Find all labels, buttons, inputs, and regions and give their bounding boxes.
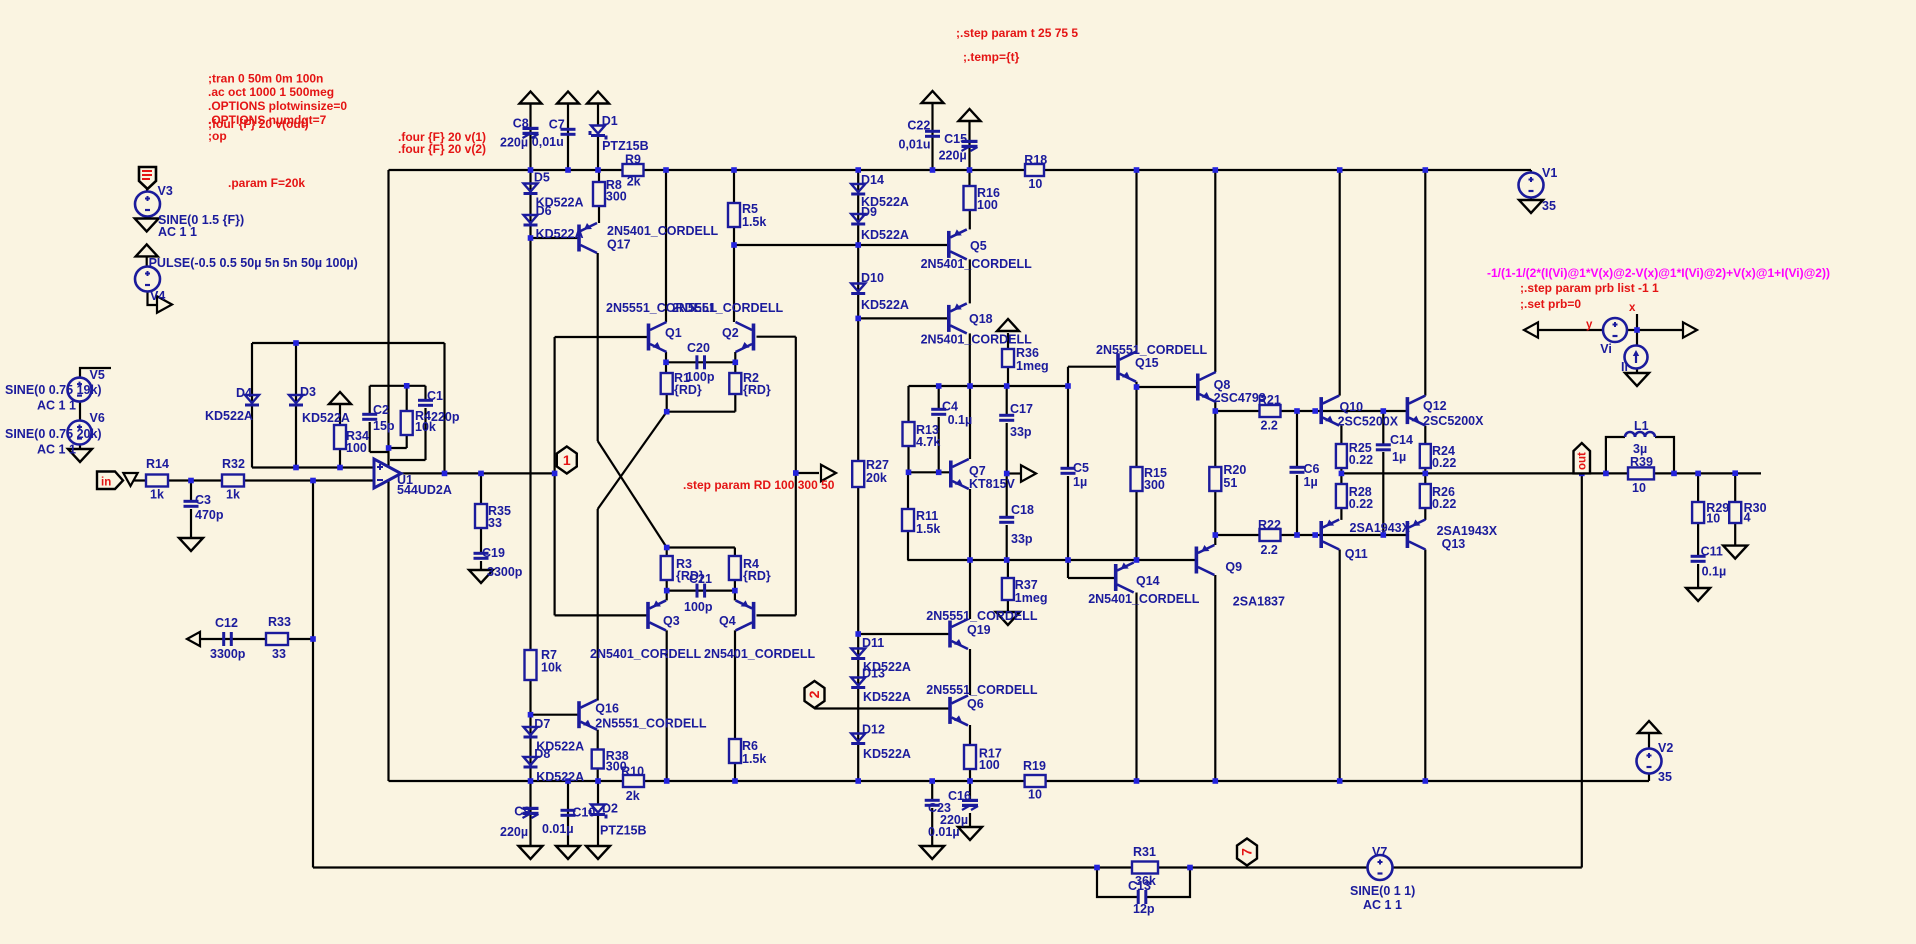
diode D10 <box>851 284 865 296</box>
ground <box>1625 373 1649 386</box>
wire <box>406 386 408 411</box>
junction <box>1134 778 1140 784</box>
svg-text:2k: 2k <box>627 175 641 189</box>
text <box>939 148 967 162</box>
power flag <box>557 92 579 104</box>
wire <box>969 649 971 695</box>
svg-text:12p: 12p <box>1133 902 1155 916</box>
junction <box>664 409 670 415</box>
wire <box>1734 523 1736 546</box>
text <box>1349 485 1372 499</box>
svg-text:R19: R19 <box>1023 759 1046 773</box>
capacitor C22 <box>925 130 940 138</box>
wire <box>597 781 599 804</box>
capacitor C8 <box>523 127 539 138</box>
capacitor C12 <box>222 632 233 646</box>
svg-text:V3: V3 <box>158 184 173 198</box>
directive text <box>208 99 347 113</box>
wire <box>389 780 1650 782</box>
junction <box>404 383 410 389</box>
wire <box>480 473 482 504</box>
resistor R38 <box>592 750 604 769</box>
wire <box>1697 473 1699 502</box>
diode D6 <box>524 215 538 227</box>
wire <box>1636 314 1638 330</box>
text <box>979 758 1000 772</box>
capacitor C16 <box>962 799 978 810</box>
text <box>572 805 595 819</box>
svg-text:R36: R36 <box>1016 346 1039 360</box>
wire <box>312 481 314 868</box>
resistor R4 <box>401 411 413 435</box>
svg-text:R33: R33 <box>268 615 291 629</box>
text <box>1016 359 1049 373</box>
junction <box>565 778 571 784</box>
wire <box>969 259 971 303</box>
svg-text:L1: L1 <box>1634 419 1649 433</box>
svg-text:220µ: 220µ <box>500 825 528 839</box>
svg-text:KD522A: KD522A <box>863 747 911 761</box>
svg-text:C14: C14 <box>1390 433 1413 447</box>
svg-text:x: x <box>1629 302 1636 314</box>
resistor R20 <box>1209 467 1221 491</box>
text <box>921 332 1033 346</box>
text <box>1258 393 1281 407</box>
wire <box>1007 600 1009 612</box>
text <box>1144 466 1167 480</box>
svg-text:2N5401_CORDELL: 2N5401_CORDELL <box>590 647 702 661</box>
svg-text:R11: R11 <box>916 509 938 523</box>
wire <box>1135 382 1137 387</box>
text <box>1706 501 1729 515</box>
power flag <box>587 92 609 104</box>
text <box>1338 415 1399 429</box>
svg-text:.four {F} 20 v(2): .four {F} 20 v(2) <box>398 142 486 156</box>
text <box>37 399 76 413</box>
ground <box>179 538 203 551</box>
text <box>1630 455 1653 469</box>
capacitor C13 <box>1137 890 1148 904</box>
wire <box>1648 773 1650 781</box>
text <box>149 256 358 270</box>
junction <box>663 360 669 366</box>
text <box>625 153 641 167</box>
resistor R8 <box>593 182 605 206</box>
svg-text:Q19: Q19 <box>967 623 991 637</box>
wire <box>1340 468 1342 484</box>
wire <box>424 386 426 400</box>
text <box>1658 741 1673 755</box>
diode D9 <box>851 214 865 226</box>
svg-text:V4: V4 <box>150 289 165 303</box>
text <box>1349 453 1373 467</box>
text <box>1023 759 1046 773</box>
text <box>686 370 715 384</box>
transistor Q11 <box>1319 520 1339 550</box>
wire <box>969 769 971 781</box>
svg-text:Q1: Q1 <box>665 326 682 340</box>
svg-text:C7: C7 <box>549 117 565 131</box>
arrow flag <box>187 632 200 646</box>
text <box>1542 199 1556 213</box>
text <box>482 546 505 560</box>
text <box>272 647 286 661</box>
resistor R29 <box>1692 502 1704 523</box>
ground <box>135 219 159 232</box>
wire <box>969 489 971 560</box>
text <box>926 683 1038 697</box>
directive text <box>1520 297 1581 311</box>
resistor R11 <box>902 509 914 531</box>
junction <box>1603 471 1609 477</box>
svg-text:;.set prb=0: ;.set prb=0 <box>1520 297 1581 311</box>
svg-text:D14: D14 <box>861 173 884 187</box>
wire <box>597 769 599 782</box>
text <box>861 298 909 312</box>
diode D8 <box>524 757 538 769</box>
wire <box>815 707 949 709</box>
text <box>899 137 931 151</box>
svg-text:Q4: Q4 <box>719 614 736 628</box>
resistor R39 <box>1628 467 1654 479</box>
wire <box>665 352 667 373</box>
text <box>928 825 960 839</box>
text <box>1702 564 1727 578</box>
svg-text:33: 33 <box>272 647 286 661</box>
text <box>602 139 649 153</box>
op-amp U1 <box>374 459 401 488</box>
text <box>607 237 631 251</box>
svg-text:KT815V: KT815V <box>969 477 1016 491</box>
directive text <box>208 85 334 99</box>
text <box>1658 770 1672 784</box>
junction <box>1134 167 1140 173</box>
wire <box>339 404 341 425</box>
text <box>863 660 911 674</box>
text <box>742 215 766 229</box>
text <box>1633 442 1647 456</box>
voltage source V2 <box>1637 749 1662 774</box>
wire <box>1068 366 1116 368</box>
text <box>1304 475 1318 489</box>
ground <box>586 846 610 859</box>
svg-text:C3: C3 <box>195 493 211 507</box>
svg-text:220µ: 220µ <box>939 148 967 162</box>
wire <box>553 337 555 615</box>
text <box>590 647 702 661</box>
transistor Q14 <box>1114 563 1134 593</box>
svg-text:R6: R6 <box>742 739 758 753</box>
junction <box>1187 865 1193 871</box>
svg-text:7: 7 <box>1239 848 1255 856</box>
text <box>1432 456 1456 470</box>
wire <box>567 781 569 846</box>
svg-text:Q8: Q8 <box>1214 378 1231 392</box>
wire <box>969 210 971 229</box>
svg-text:0,01u: 0,01u <box>899 137 931 151</box>
junction <box>967 383 973 389</box>
svg-text:V1: V1 <box>1542 166 1557 180</box>
svg-text:3µ: 3µ <box>1633 442 1647 456</box>
svg-text:2.2: 2.2 <box>1261 418 1278 432</box>
wire <box>567 103 569 170</box>
text <box>1015 591 1048 605</box>
power flag <box>136 244 158 256</box>
junction <box>310 636 316 642</box>
svg-text:100: 100 <box>979 758 1000 772</box>
svg-text:C16: C16 <box>948 789 971 803</box>
wire <box>598 170 600 182</box>
wire <box>369 422 371 452</box>
text <box>1011 503 1034 517</box>
svg-text:PTZ15B: PTZ15B <box>602 139 649 153</box>
junction <box>855 631 861 637</box>
wire <box>1341 472 1761 474</box>
wire <box>1097 868 1137 898</box>
junction <box>1381 532 1387 538</box>
text <box>146 457 169 471</box>
wire <box>1697 523 1699 556</box>
svg-text:Q9: Q9 <box>1225 560 1242 574</box>
transistor Q6 <box>948 695 968 725</box>
junction <box>733 360 739 366</box>
wire <box>295 343 297 468</box>
text <box>1390 433 1413 447</box>
text <box>977 186 1000 200</box>
wire <box>907 531 909 560</box>
text <box>488 504 511 518</box>
text <box>236 386 252 400</box>
text <box>861 195 909 209</box>
wire <box>907 472 909 509</box>
text <box>500 136 528 150</box>
junction <box>1312 532 1318 538</box>
svg-text:C19: C19 <box>482 546 505 560</box>
text <box>427 389 443 403</box>
svg-text:33p: 33p <box>1011 532 1033 546</box>
text <box>1423 414 1484 428</box>
svg-text:R39: R39 <box>1630 455 1653 469</box>
wire <box>529 103 531 781</box>
text <box>928 801 951 815</box>
text <box>1632 481 1646 495</box>
wire <box>369 386 371 414</box>
text <box>689 572 712 586</box>
directive text <box>956 26 1078 40</box>
svg-text:33p: 33p <box>1010 425 1032 439</box>
text <box>926 609 1038 623</box>
wire <box>734 630 736 739</box>
wire <box>968 121 970 170</box>
capacitor C19 <box>474 552 489 560</box>
voltage source V6 <box>68 421 92 445</box>
wire <box>1606 437 1625 473</box>
text <box>1706 512 1720 526</box>
text <box>513 117 529 131</box>
wire <box>370 385 426 387</box>
wire <box>597 253 599 441</box>
arrow flag <box>157 296 172 313</box>
wire <box>907 446 909 472</box>
wire <box>667 546 735 548</box>
junction <box>936 383 942 389</box>
text <box>916 435 940 449</box>
wire <box>938 417 940 472</box>
svg-text:C15: C15 <box>944 132 967 146</box>
text <box>942 400 958 414</box>
wire <box>1296 411 1298 467</box>
svg-text:C4: C4 <box>942 400 958 414</box>
junction <box>855 167 861 173</box>
wire <box>190 509 192 538</box>
junction <box>1339 471 1345 477</box>
text <box>861 173 884 187</box>
wire <box>734 548 736 557</box>
text <box>676 569 704 583</box>
text <box>969 477 1016 491</box>
svg-text:AC 1 1: AC 1 1 <box>1363 898 1402 912</box>
text <box>606 178 622 192</box>
text <box>1542 166 1557 180</box>
wire <box>1068 577 1114 579</box>
svg-text:10: 10 <box>1028 177 1042 191</box>
transistor Q16 <box>577 700 597 730</box>
svg-text:2N5401_CORDELL: 2N5401_CORDELL <box>921 257 1033 271</box>
text <box>541 661 562 675</box>
text <box>1011 532 1033 546</box>
diode D5 <box>524 184 538 196</box>
svg-text:Q2: Q2 <box>722 326 739 340</box>
text <box>606 190 627 204</box>
wire <box>909 471 950 473</box>
svg-text:2SA1837: 2SA1837 <box>1233 594 1285 608</box>
svg-text:D11: D11 <box>862 636 884 650</box>
text <box>1015 578 1038 592</box>
svg-text:.ac oct 1000 1 500meg: .ac oct 1000 1 500meg <box>208 85 334 99</box>
text <box>1261 418 1278 432</box>
text <box>195 493 211 507</box>
text <box>1214 378 1231 392</box>
text <box>415 420 436 434</box>
wire <box>733 227 735 322</box>
ground <box>1686 588 1710 601</box>
net flag 7 <box>1237 839 1257 866</box>
svg-text:C22: C22 <box>907 119 930 133</box>
text <box>195 508 224 522</box>
junction <box>793 470 799 476</box>
text <box>743 569 771 583</box>
text <box>346 429 369 443</box>
directive text <box>208 113 327 127</box>
arrow flag <box>821 465 836 482</box>
wire <box>1067 476 1069 578</box>
wire <box>1339 550 1341 782</box>
directive text <box>398 142 486 156</box>
ground <box>556 846 580 859</box>
junction <box>855 316 861 322</box>
junction <box>1213 532 1219 538</box>
capacitor C7 <box>561 128 576 136</box>
resistor R18 <box>1025 164 1044 176</box>
wire <box>666 361 735 363</box>
junction <box>967 778 973 784</box>
text <box>948 789 971 803</box>
svg-text:D7: D7 <box>534 717 550 731</box>
junction <box>1094 865 1100 871</box>
wire <box>1006 525 1008 560</box>
text <box>979 747 1002 761</box>
wire <box>667 411 736 413</box>
ground <box>958 827 982 840</box>
svg-text:R22: R22 <box>1258 518 1281 532</box>
junction <box>1579 471 1585 477</box>
text <box>37 443 76 457</box>
wire <box>734 763 736 781</box>
wire <box>1697 564 1699 588</box>
text <box>1223 463 1246 477</box>
svg-text:0.01µ: 0.01µ <box>928 825 960 839</box>
svg-text:1k: 1k <box>226 488 240 502</box>
text <box>1028 177 1042 191</box>
text <box>1135 356 1159 370</box>
svg-text:0.22: 0.22 <box>1349 497 1373 511</box>
text <box>743 371 759 385</box>
resistor R15 <box>1131 467 1143 491</box>
wire <box>1214 402 1216 411</box>
inductor L1 <box>1625 432 1655 437</box>
wire <box>665 170 667 322</box>
svg-text:Ii: Ii <box>1621 360 1628 374</box>
text <box>948 413 973 427</box>
text <box>1136 574 1160 588</box>
text <box>1133 845 1156 859</box>
capacitor C18 <box>999 516 1014 524</box>
svg-text:Q14: Q14 <box>1136 574 1160 588</box>
wire <box>1734 473 1736 502</box>
junction <box>731 167 737 173</box>
wire <box>196 638 313 640</box>
wire <box>734 580 736 600</box>
wire <box>1067 367 1069 468</box>
capacitor C1 <box>418 399 433 407</box>
svg-text:1.5k: 1.5k <box>742 215 766 229</box>
transistor Q8 <box>1196 372 1216 402</box>
diode D13 <box>851 678 865 690</box>
diode D4 <box>245 395 259 407</box>
wire <box>1135 491 1137 560</box>
wire <box>390 459 426 461</box>
svg-text:33: 33 <box>488 516 502 530</box>
text <box>970 239 987 253</box>
text <box>150 488 164 502</box>
wire <box>1007 560 1009 578</box>
arrow flag <box>1524 322 1538 337</box>
svg-text:D2: D2 <box>602 802 618 816</box>
svg-text:AC 1 1: AC 1 1 <box>37 399 76 413</box>
wire <box>1340 508 1342 520</box>
svg-text:1µ: 1µ <box>1304 475 1318 489</box>
svg-text:2k: 2k <box>626 789 640 803</box>
wire <box>1296 475 1298 535</box>
text <box>1010 402 1033 416</box>
arrow flag <box>1683 322 1697 337</box>
directive text <box>1586 319 1593 331</box>
svg-text:10: 10 <box>1632 481 1646 495</box>
wire <box>598 441 667 548</box>
capacitor C11 <box>1691 555 1706 563</box>
wire <box>1214 535 1216 545</box>
wire <box>252 342 445 344</box>
